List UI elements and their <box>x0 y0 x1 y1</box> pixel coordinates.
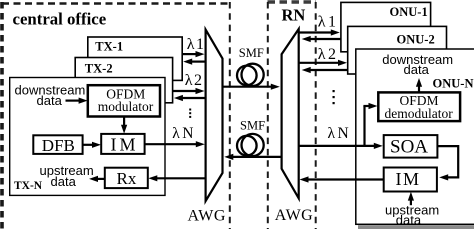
vertical dots (right) <box>333 90 335 104</box>
lambda-2 arrow to ONU-2 <box>299 60 347 66</box>
svg-text:ONU-1: ONU-1 <box>390 5 428 19</box>
lambda-1 arrow from ONU-1 <box>302 36 341 42</box>
svg-text:TX-1: TX-1 <box>95 40 123 54</box>
transmitter panel TX-N <box>10 78 165 196</box>
svg-text:λ2: λ2 <box>318 46 339 63</box>
svg-text:λN: λN <box>328 125 352 142</box>
svg-text:data: data <box>396 213 422 228</box>
fiber coil (upper) <box>237 64 264 86</box>
ONU-2 box <box>348 26 447 74</box>
svg-text:SMF: SMF <box>239 46 264 60</box>
downstream fiber wire with arrow <box>223 84 280 90</box>
svg-text:modulator: modulator <box>98 99 154 114</box>
OFDM modulator box <box>88 85 160 116</box>
downstream data label (right) <box>382 52 453 77</box>
branch wire to OFDM demodulator <box>363 103 377 146</box>
upstream data label (left) <box>40 163 94 189</box>
Rx receiver box <box>105 168 148 188</box>
svg-text:DFB: DFB <box>42 136 75 155</box>
transmitter box TX-2 <box>75 58 172 103</box>
svg-text:RN: RN <box>282 6 306 25</box>
arrow OFDM modulator to IM <box>121 117 127 134</box>
vertical dots (left) <box>189 109 191 118</box>
svg-text:ONU-N: ONU-N <box>433 76 474 90</box>
lambda-1 upstream arrow <box>183 59 205 65</box>
svg-text:demodulator: demodulator <box>385 106 454 121</box>
arrow Rx to upstream data <box>89 176 105 182</box>
wire AWG to Rx (upstream) <box>148 175 205 181</box>
lambda-2 upstream arrow <box>174 95 206 101</box>
DFB laser box <box>33 135 82 155</box>
svg-text:λN: λN <box>172 125 196 142</box>
SOA box <box>384 135 438 158</box>
svg-text:data: data <box>51 174 77 189</box>
svg-text:λ1: λ1 <box>318 14 339 31</box>
transmitter box TX-1 <box>88 37 182 80</box>
svg-text:SOA: SOA <box>390 137 428 158</box>
upstream data label (right) <box>385 203 439 228</box>
svg-text:SMF: SMF <box>240 119 265 133</box>
svg-text:TX-2: TX-2 <box>85 61 113 75</box>
wire IM to AWG with lambda-N arrow <box>145 141 205 147</box>
ONU-N panel shadow <box>358 225 474 229</box>
arrow DFB to IM <box>83 142 101 148</box>
central office dashed box <box>2 2 230 229</box>
lambda-1 downstream arrow <box>182 51 204 57</box>
lambda-1 arrow to ONU-1 <box>299 29 340 35</box>
svg-text:AWG: AWG <box>188 208 226 225</box>
IM box (ONU) <box>384 168 437 192</box>
svg-text:IM: IM <box>111 135 139 155</box>
IM box (central office) <box>101 134 144 155</box>
wire RN AWG to SOA (downstream) <box>299 143 383 149</box>
svg-text:λ2: λ2 <box>185 72 204 89</box>
OFDM demodulator box <box>378 92 460 121</box>
downstream data label (left) <box>15 82 86 108</box>
svg-text:data: data <box>37 93 63 108</box>
svg-text:data: data <box>404 62 430 77</box>
ONU-1 box <box>341 2 431 51</box>
upstream fiber wire with arrow <box>224 154 281 160</box>
wire IM to RN AWG (upstream) <box>300 176 384 182</box>
svg-text:ONU-2: ONU-2 <box>397 33 435 47</box>
svg-text:IM: IM <box>396 169 421 189</box>
AWG demux (central office) <box>206 30 223 201</box>
svg-text:central office: central office <box>13 9 107 28</box>
lambda-2 arrow from ONU-2 <box>302 67 348 73</box>
arrow downstream data to OFDM modulator <box>66 98 88 104</box>
AWG router (RN) <box>282 29 299 198</box>
arrow OFDM demodulator to downstream data <box>416 78 422 92</box>
RN dashed box <box>268 2 317 229</box>
lambda-2 downstream arrow <box>173 88 205 94</box>
arrow upstream data to IM <box>408 192 414 205</box>
ONU-N panel <box>356 49 474 224</box>
fiber coil (lower) <box>237 134 264 156</box>
svg-text:λ1: λ1 <box>187 36 206 53</box>
svg-text:AWG: AWG <box>275 207 313 224</box>
svg-text:Rx: Rx <box>117 169 137 188</box>
svg-text:TX-N: TX-N <box>14 180 43 192</box>
wire SOA to IM <box>437 146 458 180</box>
